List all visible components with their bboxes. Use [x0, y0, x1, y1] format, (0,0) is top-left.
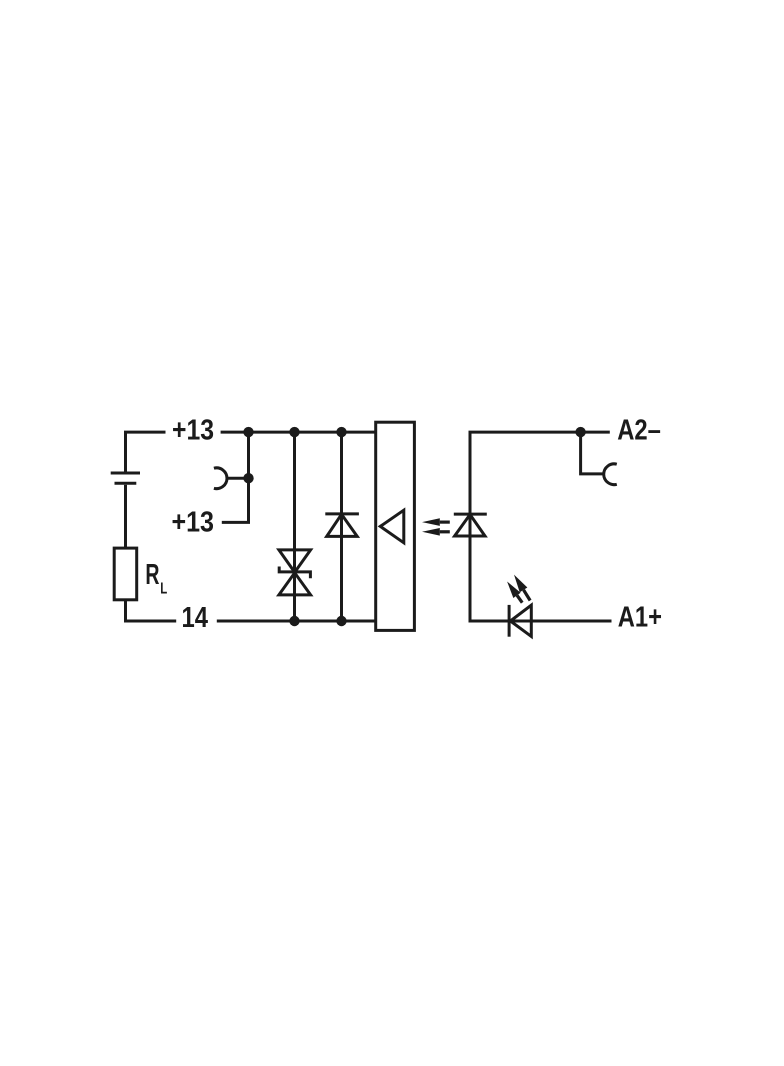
wire top rail +13 to output box	[221, 431, 376, 434]
opto LED D3 cathode bar	[454, 513, 487, 516]
wire diode branch vertical	[340, 432, 343, 621]
wire top-left (+13 to battery corner)	[126, 432, 166, 471]
junction node bottom rail 2	[336, 616, 346, 626]
wire clamp branch vertical with +13 stub	[222, 432, 249, 522]
indicator LED D4 cathode bar	[508, 605, 511, 637]
junction node top rail 1	[243, 427, 253, 437]
svg-text:L: L	[160, 581, 167, 598]
opto output triangle	[380, 510, 404, 543]
opto LED D3 triangle	[455, 515, 485, 537]
junction node clamp	[243, 473, 253, 483]
svg-text:+13: +13	[172, 415, 214, 447]
LED light arrow left	[503, 579, 525, 605]
battery B1 short plate	[115, 482, 137, 485]
svg-text:R: R	[145, 559, 159, 591]
wire bottom rail 14 to output box	[217, 620, 376, 623]
opto light arrow lower	[422, 528, 450, 536]
junction node A2	[575, 427, 585, 437]
LED light arrow right	[510, 572, 534, 603]
svg-text:A1+: A1+	[618, 601, 662, 633]
wire resistor to 14 rail	[126, 600, 177, 621]
battery B1 long plate	[111, 472, 140, 475]
svg-text:A2–: A2–	[617, 414, 661, 446]
TVS suppressor D1 bottom triangle	[279, 573, 311, 595]
clamp contact arc right	[604, 464, 617, 485]
indicator LED D4 triangle	[510, 605, 531, 636]
junction node bottom rail 1	[289, 616, 299, 626]
wire battery to resistor	[124, 485, 127, 548]
wire TVS branch vertical	[293, 432, 296, 621]
wire right circuit A2 A1	[470, 432, 612, 621]
TVS suppressor D1 top triangle	[279, 550, 311, 572]
clamp contact arc left	[214, 468, 227, 489]
diode D2 cathode bar	[325, 512, 359, 515]
opto light arrow upper	[422, 518, 450, 526]
junction node top rail 3	[336, 427, 346, 437]
junction node top rail 2	[289, 427, 299, 437]
wire clamp stub	[227, 477, 249, 480]
diode D2 triangle	[327, 514, 358, 536]
svg-text:14: 14	[182, 602, 209, 634]
TVS suppressor D1 z-bar	[279, 567, 310, 579]
svg-text:+13: +13	[172, 506, 215, 538]
opto output box U1	[376, 422, 415, 630]
resistor RL body	[114, 548, 137, 600]
wire A2 clamp drop	[581, 432, 604, 474]
